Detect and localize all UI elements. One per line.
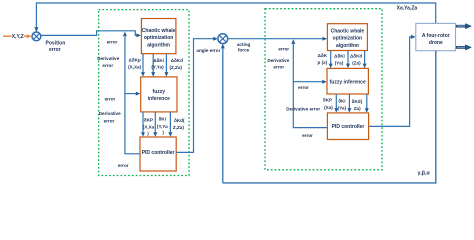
svg-text:error: error xyxy=(49,47,61,53)
svg-text:error: error xyxy=(298,85,309,90)
svg-text:Chaotic whale: Chaotic whale xyxy=(331,28,365,34)
svg-text:inference: inference xyxy=(148,96,170,102)
svg-text:error: error xyxy=(302,133,313,138)
svg-text:Z,Za): Z,Za) xyxy=(173,125,184,130)
svg-text:δKi: δKi xyxy=(159,117,166,122)
wire derivative error vertical box2 xyxy=(293,44,327,128)
svg-text:p (x): p (x) xyxy=(318,60,328,65)
wire branch into fuzzy inference 1 xyxy=(125,93,136,95)
svg-text:(X,Xa: (X,Xa xyxy=(143,125,155,130)
svg-text:(Za): (Za) xyxy=(352,61,361,66)
wire CWOA1 to fuzzy1 arrow 2 xyxy=(152,54,154,72)
wire CWOA2 to fuzzy2 arrow 3 xyxy=(364,51,366,64)
wire CWOA2 to fuzzy2 arrow 1 xyxy=(330,51,332,64)
svg-text:(Xa): (Xa) xyxy=(324,105,333,110)
wire fuzzy1 to PID1 arrow 2 xyxy=(154,112,156,132)
svg-text:optimization: optimization xyxy=(333,36,362,42)
svg-text:Derivative: Derivative xyxy=(267,58,289,63)
svg-text:Xa,Ya,Za: Xa,Ya,Za xyxy=(397,6,418,12)
svg-text:(Ya): (Ya) xyxy=(335,60,344,65)
svg-text:δKP: δKP xyxy=(144,118,153,123)
svg-text:PID controller: PID controller xyxy=(332,124,365,130)
input X,Y,Z orange arrow xyxy=(3,35,27,37)
svg-text:error: error xyxy=(107,40,118,45)
svg-text:ΔδKi: ΔδKi xyxy=(334,54,345,59)
wire derivative error vertical box1 xyxy=(125,37,140,154)
svg-text:ΔδKd: ΔδKd xyxy=(171,58,183,63)
fuzzy inference box 1 xyxy=(141,77,177,112)
svg-text:(X,Xa): (X,Xa) xyxy=(128,64,141,69)
svg-text:error: error xyxy=(118,163,129,168)
svg-text:(Ya): (Ya) xyxy=(338,106,347,111)
svg-text:PID controller: PID controller xyxy=(142,150,175,156)
svg-text:ΔδK: ΔδK xyxy=(318,53,328,58)
summing junction 2 (angle error) xyxy=(218,34,228,44)
wire fuzzy1 to PID1 arrow 3 xyxy=(169,112,171,132)
svg-text:(Z,Za): (Z,Za) xyxy=(169,65,182,70)
svg-text:angle error: angle error xyxy=(196,48,220,53)
wire fuzzy1 to PID1 arrow 1 xyxy=(142,112,144,132)
wire position error to CWOA1 xyxy=(41,31,137,36)
svg-text:A four-rotor: A four-rotor xyxy=(422,33,450,39)
svg-text:(Y,Ya: (Y,Ya xyxy=(157,124,168,129)
svg-text:ΔδKd: ΔδKd xyxy=(350,54,362,59)
four-rotor drone box xyxy=(416,23,456,50)
svg-text:δKd(: δKd( xyxy=(352,99,363,104)
wire PID1 output to summing junction 2 xyxy=(176,39,213,153)
chaotic whale optimization algorithm box 2 xyxy=(327,24,367,51)
svg-text:γ,β,α: γ,β,α xyxy=(418,171,431,177)
svg-text:ΔδKi: ΔδKi xyxy=(153,58,164,63)
svg-text:error: error xyxy=(273,64,284,69)
wire drone bottom angle feedback xyxy=(223,51,436,183)
wire fuzzy2 to PID2 arrow 2 xyxy=(348,94,350,108)
svg-text:fuzzy inference: fuzzy inference xyxy=(330,79,366,85)
wire acting force to CWOA2 xyxy=(228,38,323,40)
svg-text:optimization: optimization xyxy=(144,35,173,41)
green dashed box 2 (attitude controller) xyxy=(265,9,382,170)
fuzzy inference box 2 xyxy=(327,68,368,94)
svg-text:Za): Za) xyxy=(354,106,361,111)
svg-text:fuzzy: fuzzy xyxy=(153,89,166,95)
svg-text:Derivative: Derivative xyxy=(97,56,119,61)
svg-text:error: error xyxy=(104,119,115,124)
svg-text:algorithm: algorithm xyxy=(336,43,359,49)
drone output block arrow 1 xyxy=(456,24,471,29)
svg-text:ΔδKp: ΔδKp xyxy=(128,57,140,62)
wire CWOA2 to fuzzy2 arrow 2 xyxy=(347,51,349,64)
green dashed box 1 (position controller) xyxy=(99,10,189,176)
chaotic whale optimization algorithm box 1 xyxy=(141,19,176,54)
svg-text:δKd(: δKd( xyxy=(174,118,185,123)
svg-text:δKP: δKP xyxy=(323,97,332,102)
summing junction 1 (position error) xyxy=(32,32,41,41)
svg-text:Position: Position xyxy=(46,40,66,46)
wire fuzzy2 to PID2 arrow 1 xyxy=(335,94,337,108)
svg-text:error: error xyxy=(102,63,113,68)
svg-text:Derivative: Derivative xyxy=(99,111,121,116)
svg-text:acting: acting xyxy=(237,42,251,47)
PID controller box 1 xyxy=(140,137,176,171)
drone output block arrow 2 xyxy=(456,45,471,50)
svg-text:Chaotic whale: Chaotic whale xyxy=(142,28,176,34)
wire angle feedback from below into junction 2 xyxy=(222,48,224,183)
svg-text:error: error xyxy=(278,46,289,51)
wire PID2 output to drone xyxy=(369,37,412,127)
wire CWOA1 to fuzzy1 arrow 1 xyxy=(142,54,144,72)
svg-text:error: error xyxy=(105,97,116,102)
svg-text:Derivative error: Derivative error xyxy=(286,106,320,111)
svg-text:drone: drone xyxy=(429,40,443,46)
wire branch into fuzzy inference 2 xyxy=(293,81,322,83)
svg-text:X,Y,Z: X,Y,Z xyxy=(12,34,24,40)
PID controller box 2 xyxy=(327,113,368,140)
svg-text:algorithm: algorithm xyxy=(147,43,170,49)
wire top feedback Xa,Ya,Za xyxy=(36,3,435,32)
svg-text:δKi: δKi xyxy=(338,98,345,103)
wire fuzzy2 to PID2 arrow 3 xyxy=(366,94,368,108)
svg-text:(Y,Ya): (Y,Ya) xyxy=(151,65,164,70)
svg-text:force: force xyxy=(238,48,250,53)
wire arrowhead into summing junction 1 top xyxy=(34,27,38,32)
wire CWOA1 to fuzzy1 arrow 3 xyxy=(165,54,167,72)
